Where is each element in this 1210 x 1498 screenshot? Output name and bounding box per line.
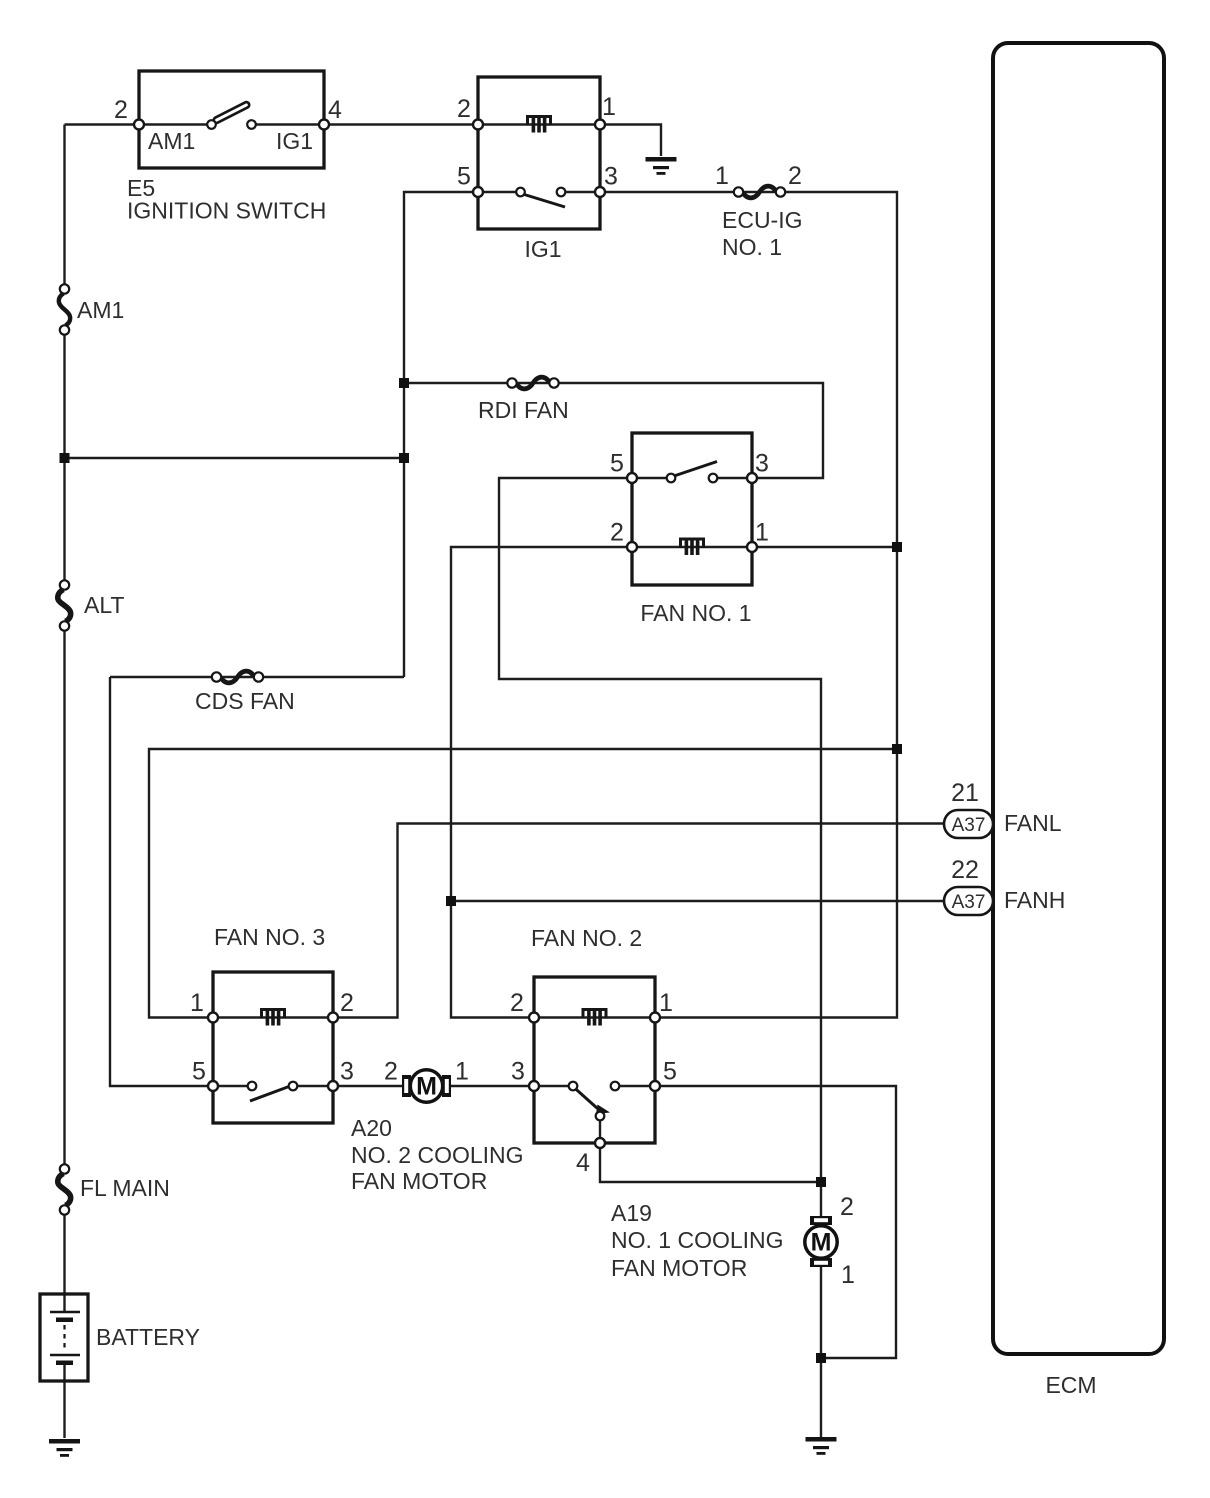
junction node rail branch right [399, 453, 409, 463]
svg-text:FAN NO. 2: FAN NO. 2 [531, 925, 642, 951]
junction node rail branch left [60, 453, 70, 463]
junction node FANH [446, 896, 456, 906]
FAN NO.3 switch contacts and lever [248, 1082, 298, 1101]
wire FANH from node to ECM [451, 900, 944, 902]
svg-text:NO. 1 COOLING: NO. 1 COOLING [611, 1227, 784, 1253]
fuse ECU-IG NO.1 [734, 186, 785, 198]
wire IG1 switch row pin5 to pin3 [478, 191, 600, 193]
svg-text:IG1: IG1 [276, 128, 313, 154]
wire inside E5 switch row [139, 123, 324, 125]
wire left rail from ignition switch pin2 down to battery [63, 125, 65, 1439]
motor A20 NO.2 cooling fan motor [402, 1070, 451, 1102]
svg-text:A19: A19 [611, 1200, 652, 1226]
motor A19 NO.1 cooling fan motor [805, 1216, 837, 1267]
ground below battery [49, 1439, 80, 1457]
fuse RDI FAN [507, 377, 558, 389]
svg-text:5: 5 [457, 163, 471, 191]
svg-text:AM1: AM1 [148, 128, 195, 154]
svg-text:FANL: FANL [1004, 810, 1062, 836]
wire IG1 pin1 to ground [600, 125, 661, 157]
junction node net 749 [892, 744, 902, 754]
svg-text:2: 2 [114, 96, 128, 124]
wire FAN NO.3 switch row interior [213, 1085, 333, 1087]
svg-text:21: 21 [951, 779, 979, 807]
svg-text:3: 3 [340, 1058, 354, 1086]
svg-text:3: 3 [755, 450, 769, 478]
wire FAN NO.2 switch row interior [534, 1085, 655, 1087]
wire RDI FAN row to FAN NO.1 pin3 [404, 383, 823, 478]
wire CDS FAN row to FAN NO.3 pin5 [110, 677, 404, 1086]
svg-text:A37: A37 [952, 892, 986, 913]
wire FAN NO.3 pin2 up to FANL [333, 824, 944, 1018]
pin circles FAN NO.3 [208, 1013, 218, 1023]
IG1 switch contacts and lever [516, 188, 565, 207]
svg-text:FAN NO. 3: FAN NO. 3 [214, 924, 325, 950]
connector A37 pin22 FANH [944, 887, 993, 915]
E5 switch contacts and blade [207, 101, 256, 129]
svg-text:IGNITION SWITCH: IGNITION SWITCH [127, 198, 326, 224]
svg-text:A20: A20 [351, 1115, 392, 1141]
svg-text:1: 1 [455, 1058, 469, 1086]
svg-text:FL MAIN: FL MAIN [80, 1175, 170, 1201]
wire IG1 coil row pin2 to pin1 [478, 123, 600, 125]
wire top row E5 pin2 to rail [65, 123, 140, 125]
svg-text:1: 1 [715, 162, 729, 190]
junction node A19 feed [816, 1177, 826, 1187]
svg-text:3: 3 [511, 1058, 525, 1086]
wire FAN NO.3 coil row interior [213, 1016, 333, 1018]
svg-text:2: 2 [340, 989, 354, 1017]
svg-text:FAN MOTOR: FAN MOTOR [351, 1168, 487, 1194]
svg-text:4: 4 [576, 1149, 590, 1177]
svg-text:NO. 1: NO. 1 [722, 234, 782, 260]
junction node FAN NO.1 pin1 [892, 542, 902, 552]
svg-text:2: 2 [840, 1193, 854, 1221]
svg-text:ALT: ALT [84, 592, 124, 618]
pin circles E5 [134, 120, 144, 130]
svg-text:AM1: AM1 [77, 297, 124, 323]
wire FAN NO.1 pin1 to ECU-IG vertical [752, 546, 897, 548]
svg-text:2: 2 [457, 95, 471, 123]
wire A20 motor to FAN NO.2 pin3 [450, 1085, 534, 1087]
relay IG1 box [478, 77, 600, 229]
coil of relay IG1 [528, 117, 551, 133]
FAN NO.1 switch contacts and lever [667, 462, 718, 483]
wire A19 motor to ground [820, 1267, 822, 1438]
svg-text:2: 2 [610, 519, 624, 547]
relay FAN NO.1 box [632, 433, 752, 585]
svg-text:CDS FAN: CDS FAN [195, 688, 295, 714]
svg-text:IG1: IG1 [524, 236, 561, 262]
svg-text:22: 22 [951, 856, 979, 884]
wire IG1 pin5 left and down to CDS FAN node [404, 192, 478, 677]
svg-text:2: 2 [788, 162, 802, 190]
svg-text:5: 5 [192, 1058, 206, 1086]
wire FAN NO.2 pin4 to A19 motor line [600, 1120, 821, 1182]
svg-text:5: 5 [663, 1058, 677, 1086]
wire IG1 pin3 through ECU-IG fuse down to FAN NO.2 pin1 [600, 192, 897, 1018]
ignition switch E5 box [139, 71, 324, 168]
svg-text:1: 1 [602, 93, 616, 121]
wire horizontal net to FAN NO.3 coil pin1 [149, 749, 897, 1018]
svg-text:5: 5 [610, 450, 624, 478]
svg-text:ECM: ECM [1045, 1372, 1096, 1398]
ECM box [993, 43, 1164, 1354]
coil of relay FAN NO.3 [262, 1010, 285, 1026]
pin circles IG1 [473, 120, 483, 130]
svg-text:ECU-IG: ECU-IG [722, 207, 803, 233]
wire battery rail branch to vertical node [65, 457, 405, 459]
fuse AM1 [59, 284, 70, 334]
FAN NO.2 switch contacts and lever [569, 1082, 620, 1121]
coil of relay FAN NO.2 [583, 1010, 606, 1026]
svg-text:FAN MOTOR: FAN MOTOR [611, 1255, 747, 1281]
pin circles FAN NO.2 [529, 1013, 539, 1023]
wire FAN NO.1 switch row interior [632, 477, 752, 479]
wire FAN NO.1 pin5 to A19 motor feed [499, 478, 821, 1217]
battery [40, 1294, 88, 1381]
svg-text:4: 4 [328, 96, 342, 124]
coil of relay FAN NO.1 [681, 539, 704, 555]
wire FAN NO.3 pin3 to A20 motor [333, 1085, 403, 1087]
svg-text:BATTERY: BATTERY [96, 1324, 200, 1350]
wire FAN NO.1 coil row interior [632, 546, 752, 548]
fuse CDS FAN [212, 671, 263, 683]
ground near IG1 [646, 157, 677, 175]
wire FAN NO.2 pin5 wrap to motor bottom [655, 1086, 896, 1358]
fusible link FL MAIN [58, 1164, 71, 1214]
wire FAN NO.2 coil row interior [534, 1016, 655, 1018]
svg-text:1: 1 [841, 1261, 855, 1289]
connector A37 pin21 FANL [944, 810, 993, 838]
svg-text:1: 1 [659, 989, 673, 1017]
pin circles FAN NO.1 [627, 473, 637, 483]
svg-text:1: 1 [190, 989, 204, 1017]
ground below A19 motor [806, 1437, 837, 1455]
relay FAN NO.2 box [534, 977, 655, 1143]
relay FAN NO.3 box [213, 972, 333, 1123]
svg-text:3: 3 [604, 163, 618, 191]
svg-text:NO. 2 COOLING: NO. 2 COOLING [351, 1142, 524, 1168]
junction node RDI FAN tap [399, 378, 409, 388]
svg-text:A37: A37 [952, 815, 986, 836]
svg-text:2: 2 [384, 1058, 398, 1086]
svg-text:FAN NO. 1: FAN NO. 1 [640, 600, 751, 626]
wire FAN NO.1 pin2 down to FANH node and FAN NO.2 pin2 [451, 547, 632, 1018]
wire E5 pin4 to IG1 relay pin2 [324, 123, 478, 125]
svg-text:RDI FAN: RDI FAN [478, 397, 569, 423]
fuse ALT [58, 580, 71, 630]
junction node A19 return [816, 1353, 826, 1363]
svg-text:2: 2 [510, 989, 524, 1017]
svg-text:1: 1 [755, 519, 769, 547]
svg-text:FANH: FANH [1004, 887, 1065, 913]
